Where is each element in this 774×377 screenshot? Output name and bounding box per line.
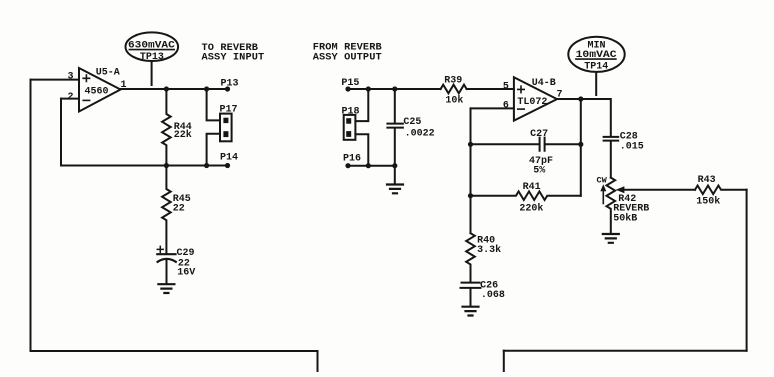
capacitor C27 (471, 138, 581, 151)
svg-text:2: 2 (68, 92, 74, 103)
wire right rail vertical (746, 190, 748, 351)
svg-text:C25: C25 (403, 117, 421, 128)
wire P18 upper stub (355, 89, 368, 121)
svg-text:P14: P14 (220, 153, 238, 164)
svg-text:U4-B: U4-B (532, 78, 556, 89)
op-amp U5-A plus input mark (83, 75, 89, 81)
svg-text:P13: P13 (221, 79, 239, 90)
wire P16 to C25 bottom (348, 165, 395, 167)
capacitor C26 (461, 283, 481, 307)
capacitor C29 plus sign (157, 246, 163, 252)
node C27 left junction (468, 142, 473, 147)
testpoint TP14 stem (595, 72, 597, 95)
svg-text:.015: .015 (620, 141, 644, 152)
svg-text:.068: .068 (481, 290, 505, 301)
svg-text:1: 1 (121, 80, 127, 91)
wire feedback bottom to P14 (61, 165, 228, 167)
svg-text:4560: 4560 (85, 87, 109, 98)
connector P17 pin squares (223, 118, 228, 137)
resistor R43 (695, 186, 747, 195)
wire pin3 input U5-A (31, 79, 80, 81)
svg-text:220k: 220k (519, 202, 543, 214)
resistor R45 (162, 166, 171, 254)
svg-text:50kB: 50kB (613, 212, 637, 224)
node C27 right junction (578, 142, 583, 147)
wire P17 lower stub (207, 134, 220, 166)
resistor R40 (466, 233, 475, 282)
terminal P13 (225, 86, 230, 91)
svg-text:ASSY INPUT: ASSY INPUT (202, 52, 265, 64)
TP14 divider line (575, 58, 617, 60)
wire pin6 U4-B (471, 107, 514, 109)
capacitor C29 bottom curved plate (158, 259, 176, 262)
wire inverting node vertical (470, 108, 472, 233)
svg-text:7: 7 (557, 89, 563, 100)
connector P17 body (220, 114, 232, 142)
node R41 left junction (468, 193, 473, 198)
svg-text:16V: 16V (177, 268, 195, 279)
svg-text:P15: P15 (341, 78, 359, 89)
capacitor C29 top plate (157, 253, 175, 255)
terminal P16 (345, 163, 350, 168)
svg-text:CW: CW (597, 175, 608, 185)
node P18 lower junction (366, 163, 371, 168)
node C25 top junction (392, 86, 397, 91)
wire P15 to R39 (348, 88, 441, 90)
terminal P14 (225, 163, 230, 168)
wire U4-B output (557, 99, 611, 137)
op-amp U4-B (514, 77, 557, 120)
op-amp U4-B plus input mark (518, 86, 524, 92)
ground below C25 (387, 185, 403, 194)
svg-text:3: 3 (68, 71, 74, 82)
svg-text:150k: 150k (696, 196, 720, 208)
wire left notch vertical (317, 351, 319, 372)
ground below C29 (158, 284, 174, 293)
ground below C26 (463, 307, 479, 316)
resistor R39 (441, 85, 514, 94)
capacitor C25 (387, 89, 403, 184)
svg-text:P18: P18 (342, 107, 360, 118)
wire feedback vertical from pin2 (60, 99, 62, 166)
wire left rail vertical (30, 80, 32, 351)
svg-text:U5-A: U5-A (96, 68, 120, 79)
potentiometer R42 body (607, 178, 616, 234)
svg-text:TP14: TP14 (584, 62, 608, 73)
node C25 bottom junction (392, 163, 397, 168)
ground below R42 (603, 234, 619, 243)
svg-text:22: 22 (173, 204, 185, 215)
potentiometer R42 wiper arrow (623, 189, 695, 191)
svg-text:5%: 5% (533, 165, 545, 176)
node P18 upper junction (366, 86, 371, 91)
op-amp U4-B minus input mark (518, 108, 524, 110)
node R44 bottom junction (164, 163, 169, 168)
wire pin2 U5-A (61, 98, 79, 100)
svg-text:.0022: .0022 (405, 129, 435, 140)
capacitor C28 (604, 137, 619, 178)
node U5-A output / R44 junction (164, 86, 169, 91)
svg-text:5: 5 (503, 81, 509, 92)
node P17 lower junction (204, 163, 209, 168)
wire right notch vertical (503, 351, 505, 372)
wire bottom-left rail horizontal (31, 350, 318, 352)
wire P18 lower stub (355, 134, 368, 165)
op-amp U5-A minus input mark (83, 99, 89, 101)
svg-text:P17: P17 (220, 105, 238, 116)
node U4-B output junction (578, 96, 583, 101)
resistor R44 (162, 89, 171, 166)
wire U5-A output to P13 (121, 88, 228, 90)
CW direction arrow (602, 189, 604, 204)
op-amp U5-A (79, 68, 121, 112)
node P17 upper junction (204, 86, 209, 91)
wire bottom-right rail horizontal (504, 350, 747, 352)
svg-text:R39: R39 (444, 75, 462, 86)
terminal P15 (345, 86, 350, 91)
svg-text:R41: R41 (523, 182, 541, 193)
capacitor C29 bottom stem (166, 260, 168, 284)
svg-text:TP13: TP13 (140, 52, 164, 63)
wire feedback vertical to output (580, 99, 582, 196)
svg-text:C27: C27 (530, 129, 548, 140)
svg-text:10k: 10k (445, 94, 463, 106)
svg-text:6: 6 (503, 101, 509, 112)
svg-text:TL072: TL072 (517, 97, 547, 108)
svg-text:22k: 22k (174, 129, 192, 141)
connector P18 pin squares (346, 118, 351, 137)
svg-text:P16: P16 (343, 154, 361, 165)
TP13 divider line (129, 49, 175, 51)
wire P17 upper stub (207, 89, 220, 120)
svg-text:R43: R43 (698, 175, 716, 186)
svg-text:C29: C29 (177, 248, 195, 259)
testpoint TP13 stem (151, 61, 153, 85)
connector P18 body (344, 115, 356, 140)
testpoint TP13 oval (126, 32, 179, 61)
svg-text:3.3k: 3.3k (477, 244, 501, 256)
testpoint TP14 oval (568, 37, 624, 72)
resistor R41 (471, 191, 581, 200)
svg-text:ASSY OUTPUT: ASSY OUTPUT (313, 52, 382, 64)
